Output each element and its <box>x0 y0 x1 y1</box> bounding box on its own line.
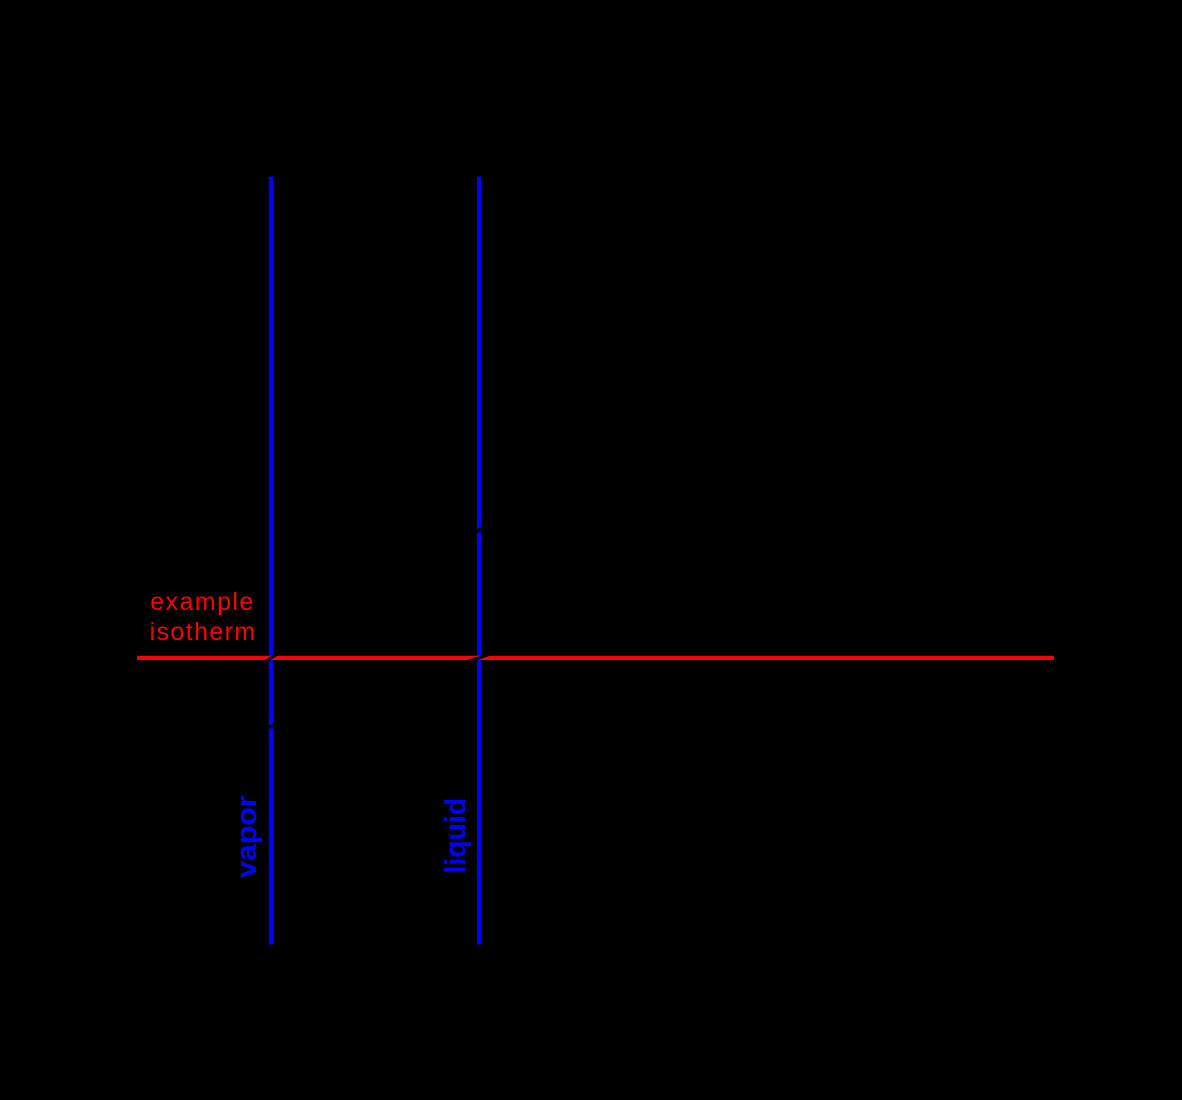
wire example-isotherm (red axhline) <box>137 656 1054 660</box>
svg-text:vapor: vapor <box>231 795 263 878</box>
node vapor-pressure-line (blue axvline, low pressure) <box>269 177 273 945</box>
black curve 1 (phase boundary through left crossing) <box>175 468 580 717</box>
svg-text:liquid: liquid <box>440 798 472 874</box>
svg-text:isotherm: isotherm <box>150 618 256 646</box>
black curve 2 (phase boundary through right crossing) <box>160 605 640 763</box>
svg-text:example: example <box>150 588 253 616</box>
node liquid-pressure-line (blue axvline, high pressure) <box>477 177 481 945</box>
axes frame (black, invisible on black background) <box>137 177 1054 945</box>
